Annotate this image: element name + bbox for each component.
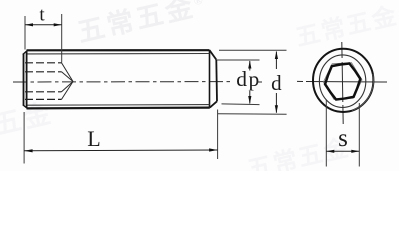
svg-text:t: t [39,5,45,26]
svg-text:dp: dp [236,67,261,91]
paper background [0,0,399,171]
socket cone [62,63,74,100]
socket line upper-outer [25,62,62,64]
dimension s arrow left [326,150,334,153]
left top chamfer [23,50,28,54]
right face [215,60,218,102]
socket line lower-inner [25,91,62,93]
left face outer line [23,54,25,106]
right top chamfer [210,50,217,59]
dimension dp arrow up [248,61,251,69]
dimension dp extension lines [217,60,260,105]
dimension d arrow down [275,105,278,113]
hex socket thin outline [323,63,362,99]
dimension s extension lines [326,100,359,167]
hex socket thick outline [325,64,360,100]
side view: screw body outline [23,50,217,108]
dimension L line [24,149,218,152]
dimension d extension lines [218,50,287,114]
thread line bottom [28,104,210,107]
svg-text:s: s [338,125,348,152]
dimension dp arrow down [248,96,251,104]
dimension t line [25,24,62,26]
end view outer circle double arc [352,74,373,111]
side view: screw body centerline [13,81,231,83]
dimension t arrow left [25,23,33,26]
end view crosshair horizontal [297,80,387,83]
end view chamfer circle [319,55,365,108]
centerline dot between views [257,81,263,83]
dimension t extension lines [25,14,62,63]
dimension L extension lines [24,110,218,164]
svg-text:d: d [271,71,282,95]
right bottom chamfer [210,101,217,107]
socket line lower-outer [25,98,62,100]
left bottom chamfer [23,105,28,109]
dimension dp line segments [249,61,251,104]
hex socket hidden lines [25,63,62,100]
end view crosshair vertical [342,42,343,124]
dimension d arrow up [275,51,278,59]
dimension s arrow right [351,150,359,153]
dimension L arrow left [24,149,32,152]
thread line top [28,53,210,55]
dimension s line [326,150,359,152]
svg-text:L: L [87,126,100,151]
top edge [27,49,210,51]
right chamfer vertical [209,50,211,107]
dimension d line segments [275,52,277,113]
bottom edge [27,106,210,109]
end view outer circle [313,49,373,112]
dimension t arrow right [54,23,62,26]
socket line upper-inner [25,71,62,73]
dimension L arrow right [209,148,218,151]
left face inner line [26,51,28,108]
